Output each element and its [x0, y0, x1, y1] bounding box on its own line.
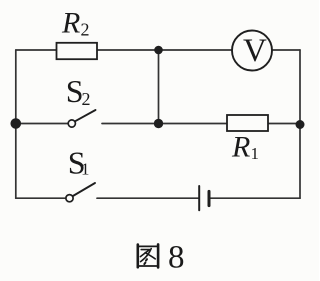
wire middle left segment to S2 — [16, 123, 68, 125]
svg-text:2: 2 — [81, 20, 90, 40]
wire top-left to R2 — [16, 49, 57, 51]
svg-text:2: 2 — [82, 89, 91, 109]
wire S1 to battery — [97, 197, 199, 199]
switch S2 — [66, 73, 96, 127]
wire right vertical — [299, 50, 301, 198]
battery — [199, 186, 209, 210]
svg-text:R: R — [231, 130, 250, 163]
node middle junction — [154, 119, 163, 128]
resistor R1 — [227, 115, 268, 163]
svg-text:8: 8 — [168, 239, 185, 275]
svg-text:R: R — [61, 7, 80, 40]
caption 图 8 — [138, 239, 185, 275]
switch S1 — [66, 144, 95, 201]
wire R1 to right junction — [268, 123, 300, 125]
svg-text:V: V — [243, 33, 267, 69]
node left-middle junction — [11, 118, 22, 129]
svg-text:1: 1 — [251, 144, 260, 163]
resistor R2 — [57, 7, 98, 60]
wire battery to bottom-right corner — [211, 197, 301, 199]
wire S2 to middle junction and R1 — [102, 123, 227, 125]
wire bottom-left to S1 — [16, 197, 66, 199]
svg-text:1: 1 — [81, 160, 90, 179]
wire R2 to top junction and voltmeter — [97, 49, 232, 51]
wire left vertical — [15, 50, 17, 198]
node top junction — [154, 46, 163, 55]
voltmeter V — [232, 31, 272, 71]
node right junction — [296, 120, 305, 129]
wire voltmeter to top-right corner — [272, 49, 300, 51]
wire middle branch vertical — [158, 50, 160, 124]
